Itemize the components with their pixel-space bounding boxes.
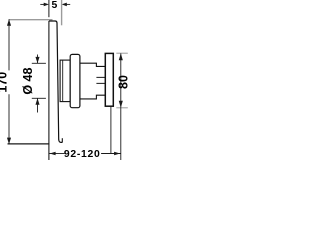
dimension 5: right arrow pointing left xyxy=(67,3,71,5)
wire: ext line of 5-dim above plate xyxy=(48,0,50,17)
wire: plate front face vertical line xyxy=(48,21,50,160)
svg-text:5: 5 xyxy=(52,0,58,11)
wire: extension down from body to 92-120 dim xyxy=(110,106,112,153)
svg-text:Ø 48: Ø 48 xyxy=(21,68,35,95)
wire: gray wall line right of plate at top xyxy=(61,0,63,25)
dimension 80: top ext line (gray) xyxy=(116,52,128,54)
wall tick at plate bottom right xyxy=(61,138,63,142)
wire: bottom extension line for 170 dim xyxy=(8,143,50,145)
arrow up 80 xyxy=(119,53,123,60)
dimension 80: bottom ext line (gray) xyxy=(116,107,128,109)
plate side profile xyxy=(49,21,63,142)
dimension 170 line xyxy=(8,19,10,144)
neck bottom outline xyxy=(80,95,105,99)
stem lines xyxy=(96,76,113,78)
handle sleeve rect xyxy=(60,60,70,102)
arrow down 80 xyxy=(119,101,123,108)
arrow down onto top line xyxy=(37,55,39,64)
neck top outline xyxy=(80,63,105,66)
dimension diameter 48: bottom ext line xyxy=(32,97,46,99)
arrow right 92-120 xyxy=(114,152,120,156)
dimension 5 at top: left arrow pointing right xyxy=(40,3,44,5)
sleeve inner edge line xyxy=(62,60,64,102)
dimension diameter 48: top ext line xyxy=(32,62,46,64)
svg-text:92-120: 92-120 xyxy=(64,149,101,160)
svg-text:170: 170 xyxy=(0,72,10,93)
arrow left 92-120 xyxy=(50,152,56,156)
arrow down 170 xyxy=(7,138,11,145)
dimension 92-120 line segments xyxy=(49,153,121,155)
svg-text:80: 80 xyxy=(117,75,131,89)
concealed body rectangle xyxy=(105,53,113,106)
knob bump rounded rect xyxy=(70,54,80,107)
arrow up onto bottom line xyxy=(37,98,39,112)
wire: top extension line (gray) from 170 dim to plate xyxy=(9,19,53,21)
arrow up 170 xyxy=(7,19,11,26)
dimension 80 line with text gap xyxy=(120,53,122,160)
